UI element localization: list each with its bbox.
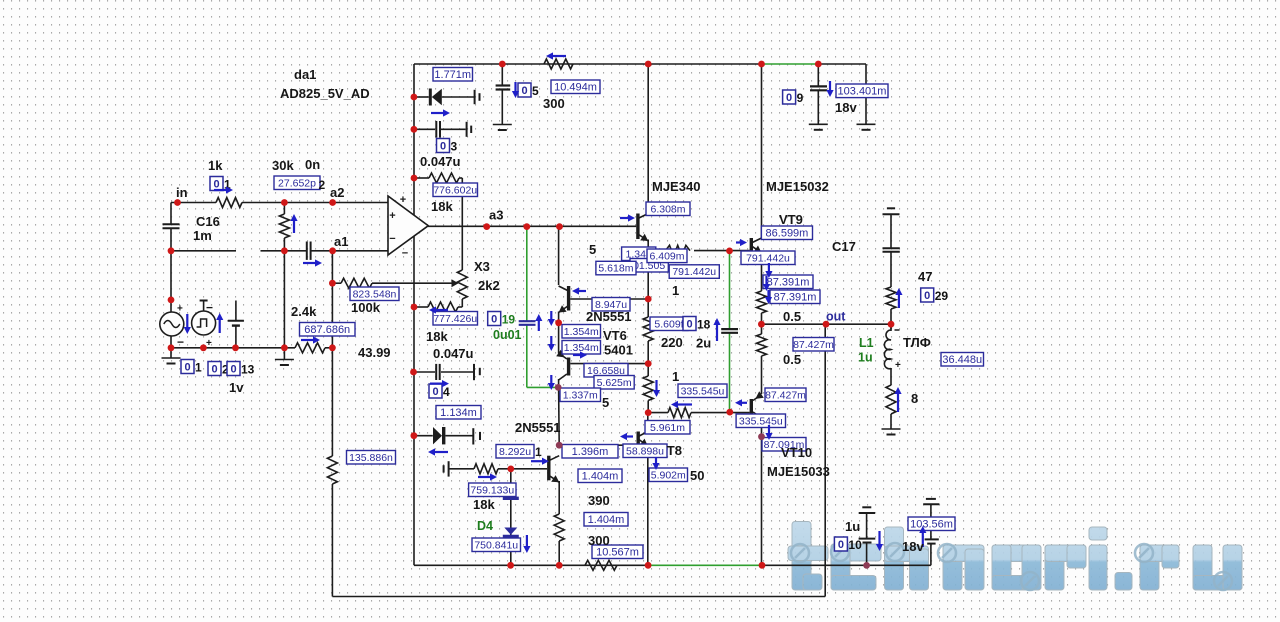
svg-text:300: 300	[588, 533, 610, 548]
svg-text:1.354m: 1.354m	[564, 326, 599, 338]
svg-text:0u01: 0u01	[493, 328, 522, 342]
svg-text:43.99: 43.99	[358, 345, 391, 360]
wire top rail green segment	[762, 63, 819, 65]
diode D lower with battery	[414, 427, 480, 445]
value box 1.396m	[562, 445, 618, 459]
svg-text:5: 5	[602, 395, 609, 410]
wire 100k/wiper y=283.2	[332, 282, 452, 284]
transistor VT7 2N5551	[547, 456, 559, 483]
wire feedback column x=462	[414, 178, 462, 307]
resistor R1 1k	[216, 198, 242, 208]
capacitor 0 9 (18v rail cap)	[810, 86, 827, 90]
svg-text:18k: 18k	[431, 199, 453, 214]
svg-text:1u: 1u	[845, 519, 860, 534]
value box 01.505 partial	[630, 259, 668, 273]
junction dots maroon	[555, 384, 870, 569]
svg-text:C16: C16	[196, 214, 220, 229]
svg-text:0: 0	[521, 85, 527, 97]
svg-text:5: 5	[532, 84, 539, 98]
svg-text:13: 13	[241, 363, 255, 377]
svg-text:1v: 1v	[229, 380, 244, 395]
svg-text:in: in	[176, 185, 188, 200]
value box 0 3	[437, 139, 458, 154]
svg-text:AD825_5V_AD: AD825_5V_AD	[280, 86, 370, 101]
op-amp U da1	[388, 194, 428, 260]
svg-text:0n: 0n	[305, 157, 320, 172]
resistor R 0.5 lower	[757, 334, 767, 356]
svg-text:18v: 18v	[902, 539, 924, 554]
value box 791.442u left	[669, 265, 719, 279]
transistor VT6 2N5401	[556, 350, 570, 380]
value box 86.599m	[761, 226, 812, 240]
capacitor 2u	[721, 329, 738, 333]
value box 0 1 r1k	[210, 177, 231, 192]
value box 759.133u	[469, 483, 516, 497]
svg-text:5.902m: 5.902m	[651, 469, 686, 481]
resistor R vt9 base chain	[666, 245, 691, 256]
svg-text:0: 0	[432, 386, 438, 398]
svg-text:50: 50	[690, 468, 704, 483]
wire a3 y=226.3	[428, 225, 636, 227]
svg-text:300: 300	[543, 96, 565, 111]
svg-text:0.5: 0.5	[783, 309, 801, 324]
svg-text:87.391m: 87.391m	[767, 276, 810, 288]
resistor R 300 top	[544, 59, 573, 69]
value box 1.345 partial	[622, 247, 656, 261]
svg-text:C17: C17	[832, 239, 856, 254]
svg-text:MJE15033: MJE15033	[767, 464, 830, 479]
svg-text:5.618m: 5.618m	[598, 263, 633, 275]
svg-text:2N5551: 2N5551	[586, 309, 632, 324]
svg-text:135.886n: 135.886n	[349, 452, 393, 464]
potentiometer X3 2k2	[452, 270, 468, 299]
svg-text:0: 0	[686, 319, 692, 331]
wire left box rail x=414	[413, 64, 415, 565]
ground 30k column	[275, 360, 294, 366]
svg-text:18: 18	[697, 318, 711, 332]
svg-text:1.134m: 1.134m	[440, 407, 477, 419]
wire bottom rail2 y=596.5	[332, 596, 825, 598]
wire out vertical x=825	[824, 324, 826, 596]
diode D4 pair	[503, 490, 519, 537]
transistor MJE340	[636, 214, 648, 242]
svg-text:103.56m: 103.56m	[910, 518, 953, 530]
svg-text:2N5551: 2N5551	[515, 420, 561, 435]
value box 87.427m a	[793, 338, 834, 352]
value box 36.448u	[941, 353, 984, 367]
value box 5.618m	[596, 261, 636, 275]
wire green a3 branch x=527	[527, 227, 558, 388]
value box 6.409m	[647, 249, 687, 263]
wire rail3 sources y=347.8	[171, 347, 332, 349]
wire vt7 emitter x=559.2	[558, 481, 560, 565]
current arrows blue	[184, 52, 927, 553]
svg-text:87.391m: 87.391m	[774, 291, 817, 303]
svg-text:ТЛФ: ТЛФ	[903, 335, 931, 350]
wire 30k column	[283, 203, 285, 360]
svg-text:6.308m: 6.308m	[650, 203, 685, 215]
value box 8.947u	[592, 298, 630, 312]
label out	[826, 310, 846, 324]
svg-text:+: +	[206, 338, 212, 349]
value box 1.337m	[560, 388, 601, 402]
svg-text:0: 0	[838, 539, 844, 551]
svg-text:0: 0	[213, 179, 219, 191]
svg-text:220: 220	[661, 335, 683, 350]
capacitor 0 5 top	[496, 64, 511, 125]
svg-text:2k2: 2k2	[478, 278, 500, 293]
ground sine	[162, 358, 181, 364]
wire green 2u column x=729.5	[729, 251, 731, 412]
value box 0 10	[834, 537, 862, 552]
svg-text:+: +	[177, 304, 183, 315]
capacitor 1u bottom	[859, 507, 876, 542]
svg-text:+: +	[389, 210, 395, 222]
transistor T8	[637, 432, 648, 447]
value box 5.961m	[645, 421, 690, 435]
value box 0 4	[429, 384, 450, 399]
value box 335.545u right	[736, 414, 785, 428]
value box 5.609f + 0 18	[650, 317, 711, 332]
value box 87.391m a	[763, 275, 813, 289]
svg-text:2.4k: 2.4k	[291, 304, 317, 319]
diode D top with battery	[414, 89, 480, 106]
battery 18v bottom	[923, 499, 939, 544]
resistor R 300 bottom	[585, 560, 617, 570]
ground top cap 18v	[809, 124, 828, 130]
wire vt7 collector node y=445.2	[559, 444, 636, 446]
svg-text:47: 47	[918, 269, 932, 284]
svg-text:MJE15032: MJE15032	[766, 179, 829, 194]
value box 0 29	[921, 288, 949, 303]
ground cap 0 5	[493, 125, 512, 131]
svg-text:1.337m: 1.337m	[563, 389, 598, 401]
value box 5.625m	[594, 376, 634, 390]
wire top +rail y=64	[414, 63, 866, 65]
svg-text:777.426u: 777.426u	[433, 313, 477, 325]
svg-text:da1: da1	[294, 67, 316, 82]
svg-text:791.442u: 791.442u	[672, 266, 716, 278]
value box 750.841u	[472, 538, 521, 552]
resistor R 8 speaker	[886, 385, 896, 414]
svg-text:0: 0	[786, 92, 792, 104]
svg-text:L1: L1	[859, 336, 874, 350]
label 1v sub	[0, 0, 1, 1]
value box 1.404m a	[578, 469, 622, 483]
svg-text:1.404m: 1.404m	[588, 514, 625, 526]
transistor VT5 2N5551	[559, 286, 571, 313]
value box 0 2 0 13	[181, 360, 255, 377]
resistor R 18k feedback bottom	[428, 302, 458, 312]
svg-text:0: 0	[491, 314, 497, 326]
svg-text:1: 1	[195, 361, 202, 375]
svg-text:a2: a2	[330, 185, 344, 200]
value box 27.652p	[274, 176, 326, 192]
svg-text:+: +	[895, 360, 901, 371]
wire bottom battery column x=930.9	[930, 504, 932, 565]
svg-text:10: 10	[848, 538, 862, 552]
resistor R 1 horizontal	[668, 408, 691, 418]
svg-text:10.567m: 10.567m	[596, 546, 639, 558]
ground top battery	[857, 124, 876, 130]
wire 220 column x=648.2	[647, 64, 649, 413]
svg-text:0.047u: 0.047u	[420, 154, 461, 169]
svg-text:791.442u: 791.442u	[746, 252, 790, 264]
svg-text:out: out	[826, 310, 846, 324]
resistor R 220	[643, 317, 653, 341]
capacitor C16 1m	[163, 224, 180, 228]
svg-text:27.652p: 27.652p	[278, 177, 316, 189]
capacitor a1 coupling	[307, 242, 311, 260]
svg-text:0: 0	[924, 290, 930, 302]
capacitor 0.047u mid (0 4)	[414, 364, 480, 380]
svg-text:18k: 18k	[473, 497, 495, 512]
resistor R 18k feedback top	[429, 173, 459, 183]
svg-text:1.354m: 1.354m	[564, 342, 599, 354]
svg-text:5.625m: 5.625m	[597, 377, 632, 389]
wire bottom 1u cap column x=866.6	[866, 513, 868, 565]
svg-text:19: 19	[502, 313, 516, 327]
resistor R 2.4k	[295, 343, 325, 353]
svg-text:X3: X3	[474, 259, 490, 274]
value box 777.426u	[433, 312, 478, 326]
resistor R 10k	[327, 456, 337, 484]
transistor VT10 MJE15033	[750, 391, 764, 418]
wire D4 column x=510.8	[510, 469, 512, 565]
svg-text:VT9: VT9	[779, 212, 803, 227]
svg-text:a1: a1	[334, 234, 348, 249]
svg-text:687.686n: 687.686n	[304, 324, 350, 336]
svg-text:1u: 1u	[858, 351, 873, 365]
svg-text:759.133u: 759.133u	[470, 484, 514, 496]
svg-text:VT10: VT10	[781, 445, 812, 460]
wire 10k column x=332	[331, 251, 333, 597]
capacitor C17	[883, 208, 900, 251]
svg-text:5.961m: 5.961m	[650, 422, 685, 434]
labels green	[477, 328, 874, 533]
wire bottom rail1 y=565.3	[414, 564, 931, 566]
svg-text:5401: 5401	[604, 343, 633, 358]
wire vt6 base y=363.6	[570, 363, 648, 365]
svg-text:776.602u: 776.602u	[433, 184, 477, 196]
svg-text:0: 0	[211, 364, 217, 376]
svg-text:86.599m: 86.599m	[766, 227, 809, 239]
value box 687.686n	[300, 323, 356, 337]
svg-text:87.427m: 87.427m	[765, 389, 806, 401]
svg-text:1.396m: 1.396m	[572, 446, 609, 458]
svg-text:0: 0	[230, 364, 236, 376]
svg-text:2u: 2u	[696, 336, 711, 351]
wire node4->vt9 y=250.6	[648, 250, 749, 252]
svg-text:87.427m: 87.427m	[793, 339, 834, 351]
svg-text:2: 2	[319, 178, 326, 192]
resistor R 390	[554, 514, 564, 541]
ground speaker	[882, 429, 901, 435]
svg-text:18v: 18v	[835, 100, 857, 115]
wire in->opamp y=202.5	[171, 202, 388, 204]
wire vt5 base y=299	[570, 298, 648, 300]
source V2 pulse	[192, 301, 216, 350]
value box 135.886n	[347, 451, 396, 465]
resistor R 100k	[341, 278, 372, 288]
wire out rail y=324.2	[762, 323, 892, 325]
wire resistor row y=412.6	[648, 412, 749, 414]
wire bottom rail1 green segment	[648, 564, 762, 566]
svg-text:MJE340: MJE340	[652, 179, 700, 194]
capacitor tick vt7 base left	[444, 461, 449, 476]
svg-text:18k: 18k	[426, 329, 448, 344]
value box 335.545u mid	[678, 384, 727, 398]
svg-text:0: 0	[440, 141, 446, 153]
value box 103.401m	[836, 84, 888, 98]
wire C17/speaker column x=891	[890, 214, 892, 429]
resistor R 18k vt7 base	[474, 464, 498, 474]
svg-text:1: 1	[535, 445, 542, 459]
wire vt7 base y=468.8	[449, 468, 548, 470]
svg-text:36.448u: 36.448u	[942, 354, 982, 366]
value box 0 19	[488, 312, 516, 327]
svg-text:6.409m: 6.409m	[649, 250, 684, 262]
value box 0 5	[518, 83, 539, 98]
svg-text:5: 5	[589, 242, 596, 257]
svg-text:1: 1	[672, 369, 679, 384]
svg-text:0: 0	[184, 362, 190, 374]
value box 87.091m	[762, 438, 806, 452]
svg-text:58.898u: 58.898u	[626, 445, 664, 457]
svg-text:335.545u: 335.545u	[739, 415, 783, 427]
svg-text:1k: 1k	[208, 158, 223, 173]
component labels black	[176, 67, 932, 554]
resistor R 1 lower	[643, 376, 653, 401]
svg-text:−: −	[177, 335, 184, 349]
resistor R 47	[886, 287, 896, 309]
svg-text:−: −	[389, 233, 395, 245]
value box 1.354m a	[562, 325, 601, 339]
value box 6.308m	[646, 202, 690, 216]
svg-text:0.047u: 0.047u	[433, 346, 474, 361]
svg-text:3: 3	[451, 140, 458, 154]
capacitor 0u01 (0 19) green/blue	[519, 321, 536, 325]
svg-text:29: 29	[935, 289, 949, 303]
svg-text:−: −	[402, 248, 408, 260]
junction dots red	[168, 61, 895, 569]
source V1 sine	[160, 304, 184, 350]
value box 791.442u right	[741, 251, 795, 265]
wire vt9/vt10 column x=761.5	[761, 64, 763, 565]
value box 58.898u	[623, 444, 667, 458]
value box 8.292u	[496, 445, 542, 460]
wire a1 y=250.8	[171, 250, 388, 252]
transistor VT9 MJE15032	[750, 238, 762, 253]
value box 1.404m b	[584, 513, 628, 527]
value box 103.56m	[908, 517, 955, 531]
svg-text:Т8: Т8	[667, 443, 682, 458]
wire stack column x=558.6	[558, 227, 561, 446]
wire t8 column x=647.8	[647, 413, 649, 566]
value box 823.548n	[350, 287, 399, 301]
value box 10.494m	[551, 80, 600, 94]
svg-text:−: −	[206, 301, 213, 315]
value box 776.602u	[433, 183, 478, 197]
resistor R 0.5 upper	[757, 291, 767, 313]
svg-text:VT6: VT6	[603, 328, 627, 343]
wire top battery column x=866	[865, 64, 867, 124]
svg-text:30k: 30k	[272, 158, 294, 173]
svg-text:1m: 1m	[193, 228, 212, 243]
svg-text:8: 8	[911, 391, 918, 406]
svg-text:10.494m: 10.494m	[554, 81, 597, 93]
svg-text:0.5: 0.5	[783, 352, 801, 367]
value box 10.567m	[592, 545, 643, 559]
svg-text:335.545u: 335.545u	[681, 385, 725, 397]
inductor L1 1u	[884, 324, 901, 371]
svg-text:1.404m: 1.404m	[582, 470, 619, 482]
value box 16.658u	[584, 364, 628, 378]
svg-text:390: 390	[588, 493, 610, 508]
value box 1.771m	[433, 68, 473, 82]
svg-text:+: +	[400, 194, 406, 206]
svg-text:4: 4	[443, 385, 450, 399]
value box 0 9	[783, 90, 804, 105]
value box 87.391m b	[770, 290, 820, 304]
svg-text:750.841u: 750.841u	[474, 539, 518, 551]
svg-text:D4: D4	[477, 519, 493, 533]
svg-text:5.609f: 5.609f	[654, 318, 683, 330]
value box 1.354m b	[562, 341, 601, 355]
watermark tehnari.ru	[788, 522, 1242, 591]
svg-text:9: 9	[797, 91, 804, 105]
wire input rail x=171	[170, 203, 172, 359]
value box 5.902m	[649, 468, 688, 482]
svg-text:100k: 100k	[351, 300, 381, 315]
resistor R2 30k	[279, 214, 289, 238]
capacitor 0.047u top (0 3)	[414, 121, 471, 138]
svg-text:103.401m: 103.401m	[838, 85, 887, 97]
svg-text:8.292u: 8.292u	[499, 446, 531, 458]
svg-text:a3: a3	[489, 208, 503, 223]
wire top cap column x=818	[817, 64, 819, 124]
value box 1.134m	[436, 406, 481, 420]
svg-text:823.548n: 823.548n	[353, 288, 397, 300]
svg-text:1.771m: 1.771m	[434, 69, 471, 81]
battery V3 1v	[228, 301, 244, 348]
svg-text:1: 1	[672, 283, 679, 298]
value box 87.427m b	[765, 388, 806, 402]
